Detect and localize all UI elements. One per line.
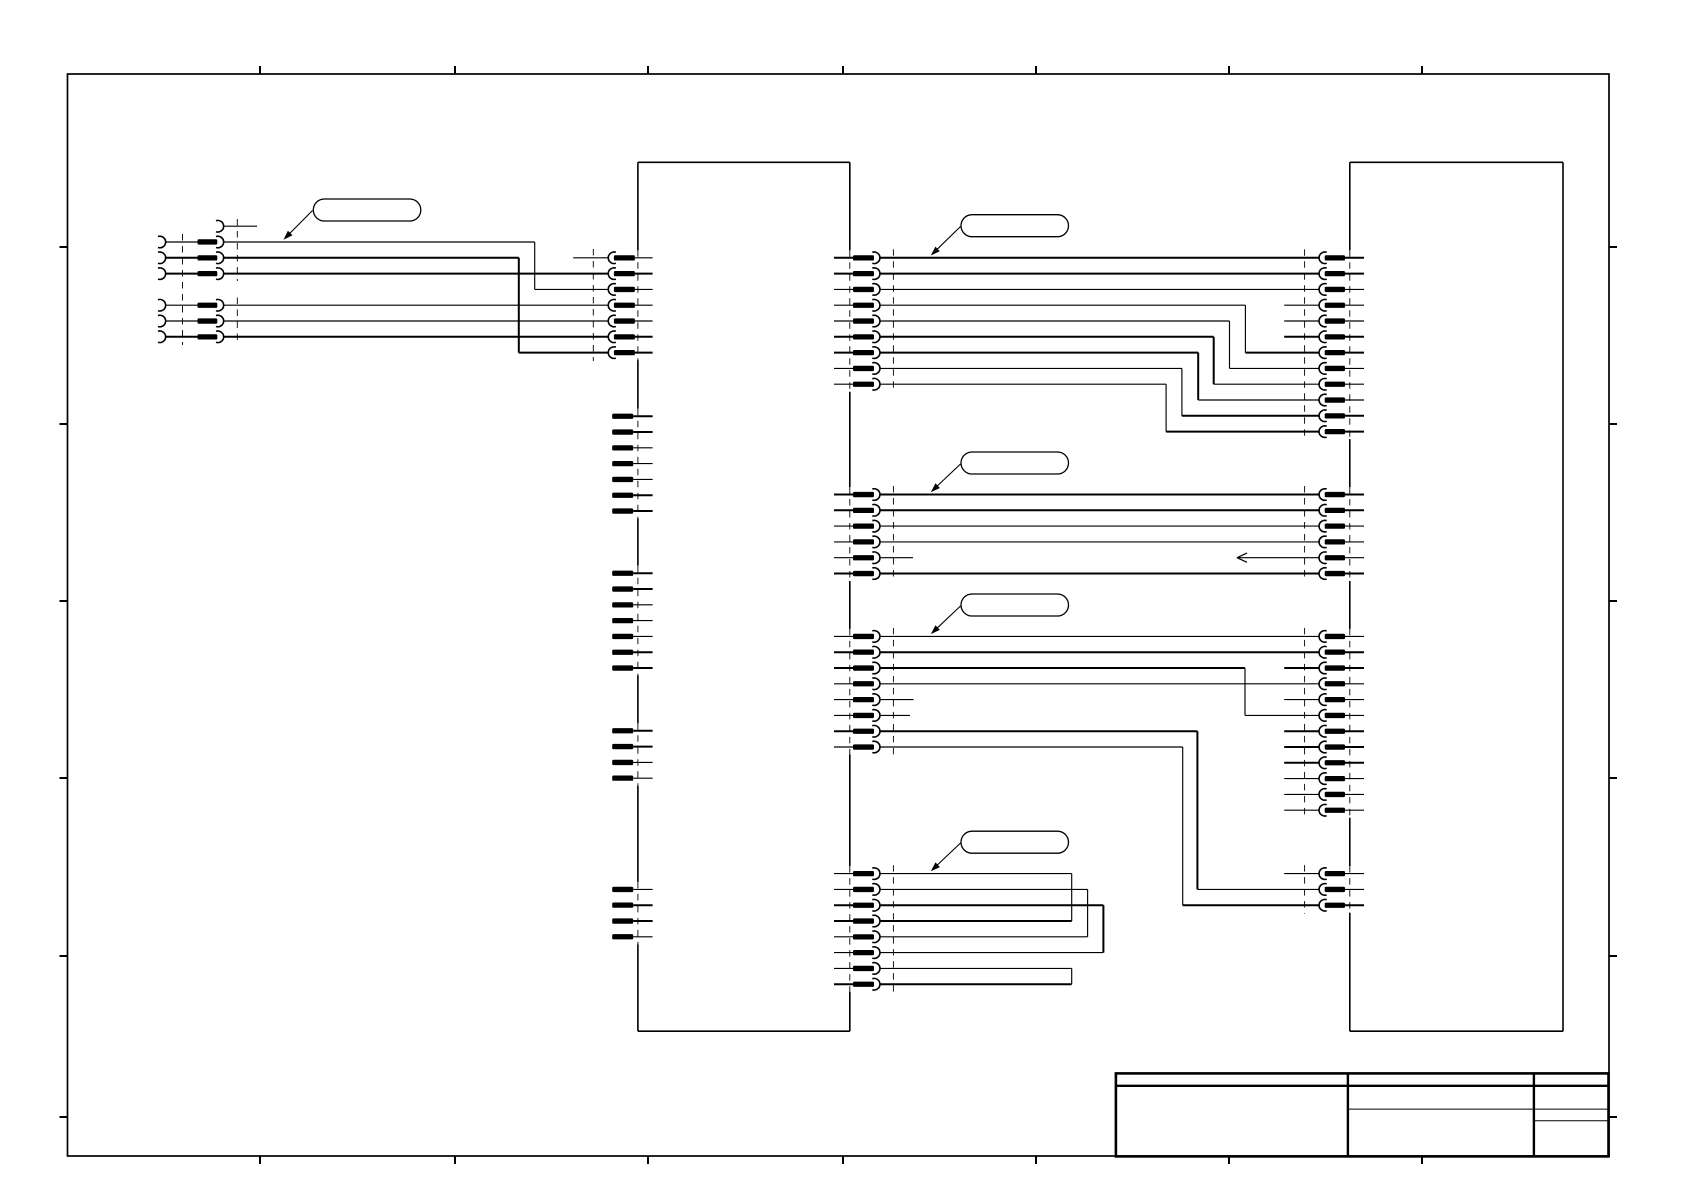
U2 g2 pin 5 arc xyxy=(1319,552,1327,564)
border tick xyxy=(454,1156,456,1164)
wire g3 pin3 jog down xyxy=(1244,668,1246,715)
U1 right g1 pin 9 arc xyxy=(872,378,880,390)
net label (redacted) U1 left g1 pin 5 xyxy=(614,318,635,323)
U1 left g1 pin 3 arc xyxy=(608,284,616,296)
wire g2 bit3 xyxy=(880,541,1319,543)
wire g1 stair horizontal xyxy=(880,320,1229,322)
border tick xyxy=(842,1156,844,1164)
wire g1 stair to U2 xyxy=(1198,399,1319,401)
U2 g1 pin 9 arc xyxy=(1319,378,1327,390)
title block inner line 1 xyxy=(1348,1108,1609,1110)
U1 left g2 pin 6 stub xyxy=(633,494,652,496)
net label (redacted) U2 g3 pin 11 xyxy=(1325,792,1345,797)
border tick xyxy=(60,955,68,957)
U2 g1 pin 3 inner stub xyxy=(1345,288,1364,290)
net label (redacted) U2 g1 pin 4 xyxy=(1325,303,1345,308)
U2 g4 pin 3 inner stub xyxy=(1345,904,1364,906)
U2 g3 pin 8 inner stub xyxy=(1345,746,1364,748)
border tick xyxy=(259,1156,261,1164)
wire g1 stair horizontal xyxy=(880,383,1166,385)
U1 right edge segment xyxy=(849,162,851,250)
wire g3 pin7 long vertical xyxy=(1196,731,1198,889)
U1 right g2 pin 3 arc xyxy=(872,520,880,532)
border tick xyxy=(60,246,68,248)
U1 left g3 pin 7 stub xyxy=(633,667,652,669)
net label (redacted) U2 g3 pin 7 xyxy=(1325,729,1345,734)
net label (redacted) U1 right g2 pin 4 xyxy=(853,539,874,544)
net label (redacted) U2 g3 pin 2 xyxy=(1325,650,1345,655)
net label (redacted) U1 left g3 pin 5 xyxy=(612,634,633,639)
U1 right g3 pin 8 inner stub xyxy=(834,746,853,748)
net label (redacted) U1 left g1 pin 7 xyxy=(614,350,635,355)
U2 g1 pin 6 arc xyxy=(1319,331,1327,343)
wire stub U2 g3 pin5 xyxy=(1284,699,1319,701)
J1 pin 6 off-page arc xyxy=(158,331,166,343)
border tick xyxy=(1609,600,1617,602)
wire g1 stair to U2 xyxy=(1245,352,1319,354)
U1 right g1 pin 1 inner stub xyxy=(834,257,853,259)
U1 right g2 pin 4 arc xyxy=(872,536,880,548)
U1 left g3 pin 1 stub xyxy=(633,572,652,574)
wire stub U2 g3 pin11 xyxy=(1284,793,1319,795)
U2 dashed boundary xyxy=(1304,486,1306,582)
net label (redacted) U1 right g4 pin 8 xyxy=(853,982,874,987)
wire g2 bit2 xyxy=(880,525,1319,527)
U1 right g3 pin 5 inner stub xyxy=(834,699,853,701)
net label (redacted) U1 right g3 pin 7 xyxy=(853,729,874,734)
U1 right g4 pin 4 inner stub xyxy=(834,920,853,922)
wire g3 pin8 horizontal xyxy=(880,746,1183,748)
U2 g3 pin 4 arc xyxy=(1319,678,1327,690)
U1 right g4 pin 8 arc xyxy=(872,978,880,990)
net label (redacted) U2 g1 pin 10 xyxy=(1325,397,1345,402)
border tick xyxy=(60,600,68,602)
wire stub U2 g1 pin4 xyxy=(1284,304,1319,306)
wire stub U2 g3 pin9 xyxy=(1284,762,1319,764)
wire J1.3 to U1 pin2 xyxy=(224,273,608,275)
U2 g1 pin 1 arc xyxy=(1319,252,1327,264)
border tick xyxy=(1035,1156,1037,1164)
wire with arrow to U2 g2 pin5 xyxy=(1237,557,1319,559)
U1 right g3 pin 3 inner stub xyxy=(834,667,853,669)
wire stub U2 g3 pin10 xyxy=(1284,778,1319,780)
wire J1.2 horizontal xyxy=(224,257,519,259)
U2 g3 pin 5 inner stub xyxy=(1345,699,1364,701)
net label (redacted) U2 g2 pin 4 xyxy=(1325,539,1345,544)
border tick xyxy=(1609,955,1617,957)
net label (redacted) U1 left g4 pin 3 xyxy=(612,760,633,765)
border tick xyxy=(647,1156,649,1164)
wire g3 bit0 xyxy=(880,635,1319,637)
U1 right dashed boundary xyxy=(892,628,894,756)
border tick xyxy=(60,423,68,425)
wire g3 pin7 to U2 g4 pin2 xyxy=(1197,888,1319,890)
border tick xyxy=(1228,1156,1230,1164)
wire g1 stair to U2 xyxy=(1230,367,1319,369)
U2 g3 pin 1 inner stub xyxy=(1345,635,1364,637)
wire stub U1 g3 pin5 xyxy=(880,699,914,701)
J1 dashed boundary upper xyxy=(236,219,238,281)
wire g4 hairpin vertical xyxy=(1087,889,1089,936)
U2 g3 pin 9 arc xyxy=(1319,757,1327,769)
U1 right edge segment xyxy=(849,581,851,629)
J1 pin 4 off-page arc xyxy=(158,299,166,311)
net label (redacted) U2 g1 pin 2 xyxy=(1325,271,1345,276)
net label (redacted) U1 right g4 pin 3 xyxy=(853,903,874,908)
net label (redacted) U1 right g2 pin 2 xyxy=(853,508,874,513)
net label (redacted) U1 right g3 pin 2 xyxy=(853,650,874,655)
U2 g1 pin 2 arc xyxy=(1319,268,1327,280)
U2 g1 pin 1 inner stub xyxy=(1345,257,1364,259)
wire g4 hairpin out xyxy=(880,967,1072,969)
net label (redacted) U2 g2 pin 3 xyxy=(1325,524,1345,529)
U1 right edge segment xyxy=(849,392,851,487)
U1 left g1 pin 2 arc xyxy=(608,268,616,280)
U2 g3 pin 10 inner stub xyxy=(1345,778,1364,780)
wire stub into U1 pin1 xyxy=(573,257,608,259)
U1 left g1 pin 7 stub xyxy=(635,352,653,354)
U2 left dashed connector boundary xyxy=(1349,629,1351,818)
wire bus g1 bit2 xyxy=(880,288,1319,290)
U1 left g1 pin 6 arc xyxy=(608,331,616,343)
U2 g3 pin 11 inner stub xyxy=(1345,793,1364,795)
U2 left dashed connector boundary xyxy=(1349,487,1351,581)
U2 left edge segment xyxy=(1349,581,1351,629)
U1 right g4 pin 1 arc xyxy=(872,868,880,880)
U2 g2 pin 6 arc xyxy=(1319,568,1327,580)
net label (redacted) U1 left g1 pin 2 xyxy=(614,271,635,276)
U1 left g2 pin 1 stub xyxy=(633,415,652,417)
U1 left g3 pin 3 stub xyxy=(633,604,652,606)
wire g4 hairpin out xyxy=(880,888,1088,890)
wire g1 stair vertical xyxy=(1165,384,1167,431)
U1 left g4 pin 2 stub xyxy=(633,746,652,748)
U1 right g3 pin 8 arc xyxy=(872,741,880,753)
U2 g4 pin 1 arc xyxy=(1319,868,1327,880)
net label (redacted) U1 right g4 pin 4 xyxy=(853,918,874,923)
net label (redacted) U1 right g4 pin 7 xyxy=(853,966,874,971)
U2 g1 pin 2 inner stub xyxy=(1345,273,1364,275)
U1 right g4 pin 7 inner stub xyxy=(834,967,853,969)
border tick xyxy=(842,66,844,74)
wire bus g1 bit1 xyxy=(880,273,1319,275)
net label (redacted) U1 left g1 pin 4 xyxy=(614,303,635,308)
U1 right g1 pin 1 arc xyxy=(872,252,880,264)
J1 pin 3 off-page arc xyxy=(158,268,166,280)
U2 g1 pin 7 arc xyxy=(1319,347,1327,359)
net label (redacted) U1 left g5 pin 1 xyxy=(612,887,633,892)
U1 left dashed connector boundary xyxy=(637,882,639,944)
arrowhead pointing left on g2 pin5 wire xyxy=(1237,553,1247,562)
net label (redacted) U2 g1 pin 11 xyxy=(1325,413,1345,418)
U2 g2 pin 2 inner stub xyxy=(1345,509,1364,511)
net label (redacted) U1 left g4 pin 2 xyxy=(612,744,633,749)
U2 left edge segment xyxy=(1349,818,1351,866)
net label (redacted) U2 g1 pin 6 xyxy=(1325,334,1345,339)
wire J1.1 jog down xyxy=(534,242,536,289)
wire g3 bit1 xyxy=(880,651,1319,653)
wire J1.5 to U1 pin5 xyxy=(224,320,608,322)
wire g1 stair vertical xyxy=(1213,337,1215,384)
wire g3 pin3 horizontal xyxy=(880,667,1245,669)
border tick xyxy=(259,66,261,74)
callout label (blank) near J1 xyxy=(313,199,421,221)
U1 left g1 pin 3 stub xyxy=(635,288,653,290)
wire J1.1 into U1 pin3 xyxy=(535,288,608,290)
U1 right g2 pin 4 inner stub xyxy=(834,541,853,543)
U1 right g1 pin 7 arc xyxy=(872,347,880,359)
net label (redacted) J1 pin 3 xyxy=(198,271,218,276)
wire g2 bit1 xyxy=(880,509,1319,511)
wire J1.2 jog down xyxy=(518,258,520,353)
U2 g3 pin 7 arc xyxy=(1319,725,1327,737)
U2 left edge segment xyxy=(1349,162,1351,250)
net label (redacted) U1 right g4 pin 5 xyxy=(853,934,874,939)
U1 right g1 pin 4 inner stub xyxy=(834,304,853,306)
U2 g1 pin 3 arc xyxy=(1319,284,1327,296)
U1 left g3 pin 4 stub xyxy=(633,620,652,622)
wire g1 stair vertical xyxy=(1229,321,1231,368)
net label (redacted) U1 left g2 pin 7 xyxy=(612,508,633,513)
net label (redacted) U1 left g1 pin 3 xyxy=(614,287,635,292)
wire J1 pin 3 lead xyxy=(166,273,198,275)
U2 g1 pin 10 inner stub xyxy=(1345,399,1364,401)
wire g1 stair to U2 xyxy=(1166,431,1319,433)
U1 right g1 pin 2 arc xyxy=(872,268,880,280)
U1 left edge segment xyxy=(637,519,639,566)
U2 right edge xyxy=(1562,162,1564,1031)
U2 g1 pin 6 inner stub xyxy=(1345,336,1364,338)
net label (redacted) U1 right g4 pin 2 xyxy=(853,887,874,892)
U1 left g1 pin 7 arc xyxy=(608,347,616,359)
U2 g4 pin 1 inner stub xyxy=(1345,873,1364,875)
U2 g3 pin 7 inner stub xyxy=(1345,730,1364,732)
net label (redacted) U2 g1 pin 9 xyxy=(1325,382,1345,387)
wire J1.4 to U1 pin4 xyxy=(224,304,608,306)
net label (redacted) U2 g3 pin 8 xyxy=(1325,744,1345,749)
net label (redacted) U1 left g5 pin 4 xyxy=(612,934,633,939)
callout label (blank) g2 xyxy=(961,452,1069,474)
wire g3 pin8 to U2 g4 pin3 xyxy=(1183,904,1319,906)
U1 left g1 pin 5 arc xyxy=(608,315,616,327)
net label (redacted) U1 left g1 pin 1 xyxy=(614,255,635,260)
wire g3 bit3 xyxy=(880,683,1319,685)
callout leader arrow g1 xyxy=(934,227,960,253)
U1 left dashed connector boundary xyxy=(637,409,639,519)
wire stub U2 g1 pin6 xyxy=(1284,336,1319,338)
U2 g3 pin 3 inner stub xyxy=(1345,667,1364,669)
net label (redacted) U1 left g2 pin 6 xyxy=(612,493,633,498)
net label (redacted) U2 g2 pin 6 xyxy=(1325,571,1345,576)
U1 left g5 pin 4 stub xyxy=(633,936,652,938)
wire stub U2 g3 pin7 xyxy=(1284,730,1319,732)
border tick xyxy=(1421,1156,1423,1164)
U2 g2 pin 4 arc xyxy=(1319,536,1327,548)
wire g1 stair horizontal xyxy=(880,352,1198,354)
wire g1 stair horizontal xyxy=(880,367,1182,369)
callout leader arrow g2 xyxy=(934,464,960,489)
U1 left g2 pin 7 stub xyxy=(633,510,652,512)
U1 right dashed connector boundary xyxy=(849,250,851,391)
J1 pin 6 connector arc xyxy=(216,331,224,343)
U1 right g2 pin 1 inner stub xyxy=(834,494,853,496)
net label (redacted) U1 right g3 pin 4 xyxy=(853,681,874,686)
U1 top edge xyxy=(638,161,850,163)
wire J1 pin0 stub xyxy=(224,225,257,227)
U1 right g1 pin 2 inner stub xyxy=(834,273,853,275)
J1 pin 0 connector arc xyxy=(216,220,224,232)
net label (redacted) U1 right g4 pin 1 xyxy=(853,871,874,876)
U2 g3 pin 9 inner stub xyxy=(1345,762,1364,764)
net label (redacted) U1 right g3 pin 5 xyxy=(853,697,874,702)
wire g4 hairpin out xyxy=(880,904,1103,906)
U1 right g4 pin 5 inner stub xyxy=(834,936,853,938)
U1 right dashed boundary xyxy=(892,865,894,993)
border tick xyxy=(1609,246,1617,248)
U1 bottom edge xyxy=(638,1030,850,1032)
wire J1 pin 5 lead xyxy=(166,320,198,322)
net label (redacted) U1 left g3 pin 6 xyxy=(612,650,633,655)
U1 left g1 pin 5 stub xyxy=(635,320,653,322)
U1 left g5 pin 1 stub xyxy=(633,888,652,890)
wire J1.2 into U1 pin7 xyxy=(519,352,608,354)
net label (redacted) U1 left g4 pin 4 xyxy=(612,776,633,781)
wire g1 stair to U2 xyxy=(1182,415,1319,417)
wire g3 pin7 horizontal xyxy=(880,730,1197,732)
U1 left g1 pin 4 stub xyxy=(635,304,653,306)
U1 left g2 pin 2 stub xyxy=(633,431,652,433)
wire stub U1 g3 pin6 xyxy=(880,714,910,716)
border tick xyxy=(647,66,649,74)
U2 g2 pin 5 inner stub xyxy=(1345,557,1364,559)
U1 right g3 pin 1 arc xyxy=(872,631,880,643)
U2 g2 pin 4 inner stub xyxy=(1345,541,1364,543)
wire g2 bit0 xyxy=(880,494,1319,496)
J1 pin 2 connector arc xyxy=(216,252,224,264)
U1 left edge segment xyxy=(637,944,639,1031)
net label (redacted) J1 pin 6 xyxy=(198,334,218,339)
U2 dashed boundary xyxy=(1304,249,1306,440)
U2 g2 pin 1 inner stub xyxy=(1345,494,1364,496)
U1 right g3 pin 2 inner stub xyxy=(834,651,853,653)
U1 right dashed connector boundary xyxy=(849,629,851,755)
U2 g3 pin 2 arc xyxy=(1319,646,1327,658)
U1 left edge segment xyxy=(637,162,639,250)
U1 right g3 pin 1 inner stub xyxy=(834,635,853,637)
net label (redacted) U2 g1 pin 12 xyxy=(1325,429,1345,434)
border tick xyxy=(60,1116,68,1118)
U1 left g3 pin 6 stub xyxy=(633,651,652,653)
wire bus g1 bit0 xyxy=(880,257,1319,259)
U1 left g3 pin 2 stub xyxy=(633,588,652,590)
wire g4 hairpin back xyxy=(880,920,1072,922)
U2 g4 pin 2 arc xyxy=(1319,884,1327,896)
U1 left g4 pin 4 stub xyxy=(633,777,652,779)
U2 g4 pin 3 arc xyxy=(1319,899,1327,911)
net label (redacted) U1 left g3 pin 3 xyxy=(612,602,633,607)
wire g1 stair to U2 xyxy=(1214,383,1319,385)
U2 g3 pin 3 arc xyxy=(1319,662,1327,674)
U1 right g4 pin 2 arc xyxy=(872,884,880,896)
net label (redacted) U2 g3 pin 5 xyxy=(1325,697,1345,702)
net label (redacted) U1 right g4 pin 6 xyxy=(853,950,874,955)
wire g4 hairpin back xyxy=(880,936,1088,938)
U2 g2 pin 6 inner stub xyxy=(1345,573,1364,575)
U1 right g2 pin 3 inner stub xyxy=(834,525,853,527)
net label (redacted) U2 g1 pin 1 xyxy=(1325,255,1345,260)
U2 g2 pin 2 arc xyxy=(1319,504,1327,516)
wire J1 pin 6 lead xyxy=(166,336,198,338)
callout leader arrow g4 xyxy=(934,843,960,868)
U2 g1 pin 9 inner stub xyxy=(1345,383,1364,385)
wire stub U2 g3 pin8 xyxy=(1284,746,1319,748)
U1 right g3 pin 6 arc xyxy=(872,710,880,722)
U1 right g1 pin 8 arc xyxy=(872,363,880,375)
U2 g1 pin 5 inner stub xyxy=(1345,320,1364,322)
net label (redacted) U2 g3 pin 9 xyxy=(1325,760,1345,765)
callout label (blank) g3 xyxy=(961,594,1069,616)
wire J1.6 to U1 pin6 xyxy=(224,336,608,338)
title block divider 2 xyxy=(1533,1073,1535,1156)
U2 g3 pin 10 arc xyxy=(1319,773,1327,785)
net label (redacted) U1 right g3 pin 6 xyxy=(853,713,874,718)
title block inner line 2 xyxy=(1534,1120,1609,1122)
net label (redacted) J1 pin 5 xyxy=(198,318,218,323)
U1 left edge segment xyxy=(637,786,639,882)
U2 left dashed connector boundary xyxy=(1349,250,1351,439)
U2 g1 pin 10 arc xyxy=(1319,394,1327,406)
U2 g3 pin 12 inner stub xyxy=(1345,809,1364,811)
U1 left g5 pin 2 stub xyxy=(633,904,652,906)
net label (redacted) U1 right g3 pin 3 xyxy=(853,665,874,670)
net label (redacted) U1 left g2 pin 1 xyxy=(612,414,633,419)
U2 g1 pin 8 arc xyxy=(1319,363,1327,375)
U1 right g3 pin 4 inner stub xyxy=(834,683,853,685)
U1 right edge segment xyxy=(849,992,851,1031)
border tick xyxy=(1609,423,1617,425)
U1 right g1 pin 5 arc xyxy=(872,315,880,327)
wire J1 pin 4 lead xyxy=(166,304,198,306)
net label (redacted) U1 left g4 pin 1 xyxy=(612,728,633,733)
net label (redacted) U1 right g1 pin 4 xyxy=(853,303,874,308)
net label (redacted) U1 right g1 pin 2 xyxy=(853,271,874,276)
U1 left g1 pin 2 stub xyxy=(635,273,653,275)
net label (redacted) U1 right g1 pin 3 xyxy=(853,287,874,292)
U1 left g1 pin 4 arc xyxy=(608,299,616,311)
U1 right g4 pin 7 arc xyxy=(872,963,880,975)
net label (redacted) U1 left g2 pin 4 xyxy=(612,461,633,466)
net label (redacted) J1 pin 1 xyxy=(198,239,218,244)
wire stub U2 g4 pin1 xyxy=(1284,873,1319,875)
net label (redacted) J1 pin 4 xyxy=(198,303,218,308)
U1 right g1 pin 3 arc xyxy=(872,284,880,296)
net label (redacted) U1 left g3 pin 4 xyxy=(612,618,633,623)
U2 g1 pin 5 arc xyxy=(1319,315,1327,327)
wire g4 hairpin vertical xyxy=(1071,968,1073,984)
U1 right g4 pin 5 arc xyxy=(872,931,880,943)
U1 left edge segment xyxy=(637,676,639,724)
U2 g3 pin 12 arc xyxy=(1319,804,1327,816)
U1 right g1 pin 5 inner stub xyxy=(834,320,853,322)
U2 left edge segment xyxy=(1349,913,1351,1031)
U2 g4 pin 2 inner stub xyxy=(1345,888,1364,890)
U1 right g3 pin 7 arc xyxy=(872,725,880,737)
title block header line xyxy=(1116,1085,1609,1087)
U1 right dashed boundary xyxy=(892,486,894,582)
net label (redacted) U1 left g2 pin 3 xyxy=(612,445,633,450)
U1 left g3 pin 5 stub xyxy=(633,635,652,637)
border tick xyxy=(60,777,68,779)
